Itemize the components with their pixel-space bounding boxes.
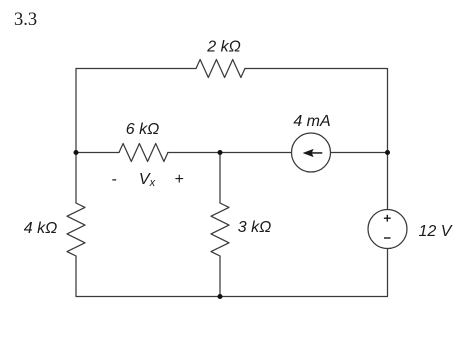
voltage source V1 plus sign xyxy=(384,215,391,222)
svg-text:+: + xyxy=(174,171,183,188)
svg-text:4 mA: 4 mA xyxy=(293,113,330,130)
junction node D dot (bottom) xyxy=(218,294,223,299)
svg-text:Vx: Vx xyxy=(139,171,156,189)
wire top-left vertical (node A to top) xyxy=(76,69,196,153)
voltage source V1 minus sign xyxy=(384,237,391,238)
wire middle-right segment xyxy=(331,152,388,154)
resistor R-left 4k zigzag xyxy=(67,203,85,256)
junction node A dot xyxy=(74,150,79,155)
svg-text:-: - xyxy=(111,171,116,188)
resistor R-top 2k zigzag xyxy=(196,60,245,78)
wire mid branch lower xyxy=(219,256,221,297)
junction node C dot xyxy=(385,150,390,155)
voltage source V1 circle xyxy=(368,210,407,249)
wire mid branch upper xyxy=(219,153,221,204)
wire bottom-right xyxy=(220,249,388,297)
resistor R-mid 6k zigzag xyxy=(119,144,168,162)
svg-text:2 kΩ: 2 kΩ xyxy=(206,39,241,56)
svg-text:6 kΩ: 6 kΩ xyxy=(126,121,160,138)
current source I1 circle xyxy=(292,133,331,172)
wire left branch upper xyxy=(75,153,77,204)
wire left branch lower xyxy=(76,256,220,297)
current source I1 arrow xyxy=(303,149,323,157)
svg-text:3.3: 3.3 xyxy=(14,10,37,30)
junction node B dot xyxy=(218,150,223,155)
wire top-right xyxy=(245,69,388,153)
resistor R-mid-branch 3k zigzag xyxy=(211,203,229,256)
wire middle to node B xyxy=(168,152,292,154)
wire middle-left segment xyxy=(76,152,119,154)
svg-text:3 kΩ: 3 kΩ xyxy=(238,219,272,236)
wire right branch upper xyxy=(387,153,389,210)
svg-text:4 kΩ: 4 kΩ xyxy=(24,220,58,237)
svg-text:12 V: 12 V xyxy=(419,223,453,240)
